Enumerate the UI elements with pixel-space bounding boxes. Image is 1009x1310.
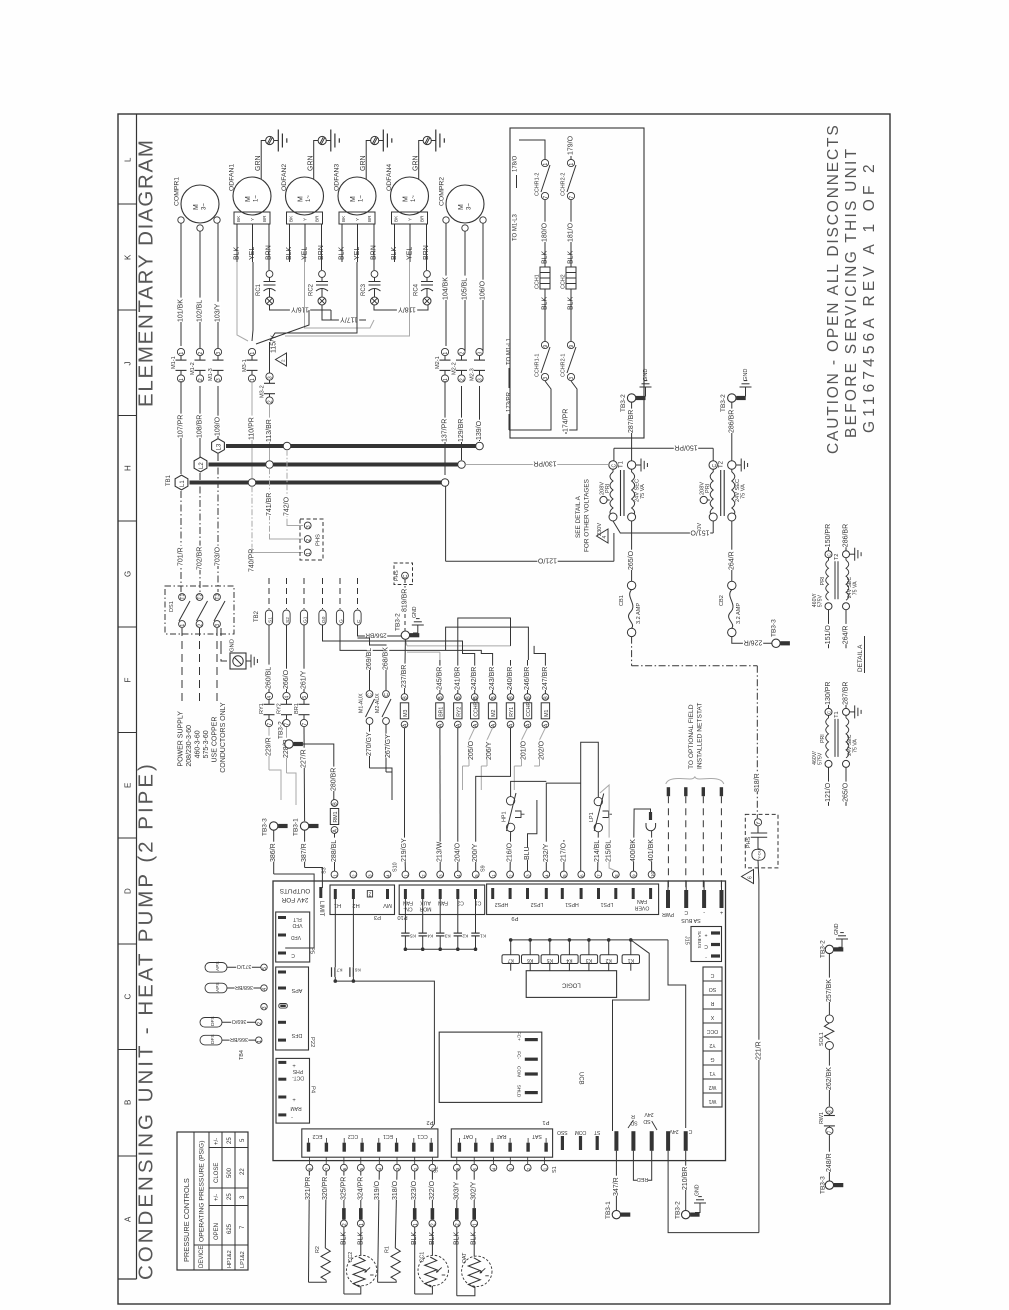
svg-text:P3: P3 bbox=[374, 914, 381, 920]
wire 227/R bbox=[303, 727, 306, 821]
svg-text:121/O: 121/O bbox=[825, 782, 832, 802]
svg-text:181/O: 181/O bbox=[568, 222, 575, 242]
transformer T1 secondary winding bbox=[631, 469, 633, 472]
svg-text:K5: K5 bbox=[410, 933, 416, 939]
auxiliary contact RY1 bbox=[265, 692, 272, 699]
svg-text:K1: K1 bbox=[628, 957, 634, 963]
svg-text:75 VA: 75 VA bbox=[853, 581, 859, 595]
relay coil RM1 bbox=[331, 800, 338, 807]
svg-text:325/PR: 325/PR bbox=[340, 1177, 347, 1200]
svg-text:2: 2 bbox=[460, 352, 466, 355]
svg-text:25: 25 bbox=[227, 1193, 233, 1200]
svg-text:2: 2 bbox=[508, 874, 513, 877]
svg-text:M3-1: M3-1 bbox=[242, 359, 248, 372]
wire H1 to K7 bbox=[334, 899, 336, 967]
svg-text:RED: RED bbox=[637, 1176, 648, 1182]
svg-text:1: 1 bbox=[472, 1223, 478, 1226]
wire YEL fan 1 bbox=[252, 231, 254, 262]
svg-text:LIMIT: LIMIT bbox=[318, 901, 324, 917]
wire 101/BK bbox=[180, 223, 182, 346]
TB2 terminal S2 bbox=[283, 610, 290, 625]
svg-text:575V: 575V bbox=[818, 752, 824, 765]
svg-text:4: 4 bbox=[602, 536, 608, 539]
phase monitor PHS output plug bbox=[394, 563, 413, 585]
svg-text:BLU: BLU bbox=[524, 846, 531, 860]
svg-text:GND: GND bbox=[743, 369, 749, 381]
wire 325/PR with splice bbox=[343, 1171, 345, 1208]
svg-text:YEL: YEL bbox=[249, 247, 256, 260]
svg-text:247/BR: 247/BR bbox=[542, 667, 549, 690]
svg-text:G: G bbox=[124, 571, 133, 577]
wire 179/O bbox=[570, 156, 572, 160]
svg-text:INSTALLED NETSTAT: INSTALLED NETSTAT bbox=[697, 703, 704, 769]
svg-text:174/PR: 174/PR bbox=[563, 409, 570, 432]
svg-text:TB4: TB4 bbox=[239, 1050, 245, 1060]
svg-text:M: M bbox=[350, 196, 357, 202]
svg-text:200/Y: 200/Y bbox=[472, 843, 479, 862]
svg-text:1: 1 bbox=[413, 1223, 419, 1226]
svg-text:M1-1: M1-1 bbox=[171, 356, 177, 369]
ODFAN3 GRN wire and plug bbox=[366, 141, 371, 180]
S1 terminal 5 bbox=[471, 1164, 478, 1171]
ground ODFAN3 bbox=[379, 140, 384, 142]
wire 219/GY M3 coil to board bbox=[404, 837, 407, 871]
svg-text:1~: 1~ bbox=[359, 195, 365, 202]
run capacitor RC4 bbox=[424, 271, 431, 278]
svg-text:CCHR2-2: CCHR2-2 bbox=[561, 173, 567, 196]
svg-text:1: 1 bbox=[333, 874, 338, 877]
svg-text:M1-2: M1-2 bbox=[190, 362, 196, 375]
svg-text:219/GY: 219/GY bbox=[401, 838, 408, 862]
svg-text:4: 4 bbox=[492, 1167, 497, 1170]
svg-text:302/Y: 302/Y bbox=[471, 1181, 478, 1200]
junction on L2 at M3-2 bbox=[266, 461, 274, 469]
svg-text:T1: T1 bbox=[619, 460, 625, 468]
svg-text:2: 2 bbox=[268, 400, 274, 403]
svg-text:R2: R2 bbox=[315, 1246, 321, 1253]
svg-text:173/PR: 173/PR bbox=[507, 391, 513, 412]
wire 102/BL bbox=[199, 231, 201, 351]
svg-text:256/BR: 256/BR bbox=[365, 631, 387, 638]
svg-text:575V: 575V bbox=[818, 595, 824, 608]
svg-text:BLK: BLK bbox=[568, 250, 575, 264]
svg-text:R: R bbox=[710, 1000, 714, 1006]
TB2 terminal G0 bbox=[319, 610, 326, 625]
terminal TB3-3 bbox=[270, 822, 278, 830]
wire 108/BR bbox=[199, 386, 201, 457]
S10 terminal 5 bbox=[472, 871, 479, 878]
svg-text:286/BR: 286/BR bbox=[842, 524, 849, 547]
svg-text:BR: BR bbox=[314, 215, 319, 222]
svg-text:3.2 AMP: 3.2 AMP bbox=[636, 603, 642, 624]
wire 202/O from M1 coil bbox=[540, 728, 546, 766]
svg-text:FAN: FAN bbox=[403, 900, 413, 906]
svg-text:5: 5 bbox=[302, 696, 308, 699]
svg-text:262/BK: 262/BK bbox=[826, 1067, 833, 1090]
wire 214/BL bbox=[597, 832, 600, 871]
svg-text:101/BK: 101/BK bbox=[178, 299, 185, 322]
svg-text:PHS: PHS bbox=[292, 1068, 303, 1074]
svg-text:3: 3 bbox=[543, 377, 549, 380]
svg-text:261/Y: 261/Y bbox=[301, 670, 308, 689]
svg-text:2: 2 bbox=[368, 891, 371, 897]
svg-text:227/R: 227/R bbox=[301, 749, 308, 768]
svg-text:GND: GND bbox=[695, 1184, 701, 1196]
wire from TB2 G0 to CCHR2 bbox=[323, 625, 475, 660]
wire RED jumper bbox=[633, 1151, 651, 1181]
svg-text:1: 1 bbox=[359, 1223, 365, 1226]
svg-text:210/BR: 210/BR bbox=[682, 1167, 689, 1190]
svg-text:217/O: 217/O bbox=[560, 842, 567, 862]
svg-text:179/O: 179/O bbox=[568, 135, 575, 155]
svg-text:C: C bbox=[688, 1128, 692, 1134]
svg-text:P22: P22 bbox=[309, 1037, 315, 1047]
ODFAN1 terminal box bbox=[234, 212, 270, 224]
ODFAN1 GRN wire and plug bbox=[261, 141, 266, 180]
svg-text:MV: MV bbox=[383, 902, 392, 908]
wire TO M1-L3 178/O bbox=[519, 140, 545, 160]
wire to M1 coil bbox=[534, 646, 545, 660]
svg-text:264/R: 264/R bbox=[728, 551, 735, 570]
connector P2 bbox=[302, 1129, 438, 1157]
wire 267/GY bbox=[385, 725, 387, 773]
svg-text:CB1: CB1 bbox=[619, 595, 625, 606]
junction on L1 at M3-1 bbox=[248, 479, 256, 487]
svg-text:W1: W1 bbox=[708, 1098, 716, 1104]
svg-text:1: 1 bbox=[431, 1167, 436, 1170]
svg-text:6: 6 bbox=[580, 874, 585, 877]
wire 287/BR T1 to TB3-2 bbox=[631, 402, 633, 461]
svg-text:APS: APS bbox=[215, 961, 221, 971]
svg-text:386/R: 386/R bbox=[270, 843, 277, 862]
svg-text:5: 5 bbox=[562, 874, 567, 877]
svg-text:215/BL: 215/BL bbox=[606, 840, 613, 862]
svg-text:245/BR: 245/BR bbox=[436, 667, 443, 690]
S1 terminal 1 bbox=[541, 1164, 548, 1171]
svg-text:1~: 1~ bbox=[411, 195, 417, 202]
svg-text:L3: L3 bbox=[217, 443, 223, 450]
svg-text:G0: G0 bbox=[321, 616, 327, 623]
svg-text:C: C bbox=[384, 693, 390, 697]
transformer T2 primary bottom bbox=[709, 513, 717, 521]
sensor CC2 bbox=[346, 1255, 376, 1285]
svg-text:FAN: FAN bbox=[438, 900, 448, 906]
svg-text:BLK: BLK bbox=[234, 246, 241, 260]
capacitor K5 bbox=[404, 899, 406, 933]
svg-text:7: 7 bbox=[828, 1131, 834, 1134]
relay K1 bbox=[629, 938, 633, 942]
svg-text:260/BL: 260/BL bbox=[266, 667, 273, 689]
svg-text:7: 7 bbox=[569, 196, 575, 199]
relay coil RY1 bbox=[507, 694, 514, 701]
svg-text:G: G bbox=[710, 1056, 714, 1062]
svg-text:DFS: DFS bbox=[291, 1032, 302, 1038]
svg-text:W2: W2 bbox=[708, 1084, 716, 1090]
svg-text:SHLD: SHLD bbox=[515, 1085, 521, 1098]
wire bus top rail outer bbox=[446, 627, 529, 660]
svg-text:701/R: 701/R bbox=[178, 547, 185, 566]
motor ODFAN2 bbox=[286, 177, 324, 215]
svg-text:TB3-2: TB3-2 bbox=[394, 613, 401, 631]
COMPR1 terminal T1 bbox=[178, 217, 184, 223]
terminal TB3-3 solenoid chain bbox=[825, 1181, 833, 1189]
svg-text:2: 2 bbox=[421, 874, 426, 877]
S3 terminal 3 bbox=[366, 871, 373, 878]
svg-text:J: J bbox=[124, 362, 133, 366]
UCB board outline bbox=[273, 881, 726, 1161]
svg-text:RAT: RAT bbox=[496, 1133, 507, 1139]
svg-text:SA BUS: SA BUS bbox=[681, 917, 701, 923]
wire 266/O bbox=[286, 625, 288, 692]
svg-text:216/O: 216/O bbox=[507, 842, 514, 862]
svg-text:DS1: DS1 bbox=[169, 601, 175, 612]
svg-text:CCHR2: CCHR2 bbox=[473, 699, 479, 717]
svg-text:TB3-3: TB3-3 bbox=[819, 1176, 826, 1194]
svg-text:DEVICE: DEVICE bbox=[199, 1246, 205, 1268]
svg-text:7: 7 bbox=[543, 196, 549, 199]
svg-text:113/BR: 113/BR bbox=[266, 419, 273, 442]
terminal 3 bbox=[261, 1004, 267, 1010]
svg-text:K2: K2 bbox=[462, 933, 468, 939]
svg-text:25: 25 bbox=[227, 1137, 233, 1144]
svg-text:CCHR1-1: CCHR1-1 bbox=[535, 354, 541, 377]
wire 221/R bbox=[758, 880, 760, 1233]
wire 264/R T2 secondary to CB2 bbox=[731, 521, 733, 581]
wire K bus to R terminal bbox=[613, 940, 650, 1131]
svg-text:CC1: CC1 bbox=[417, 1133, 427, 1139]
svg-text:DETAIL A: DETAIL A bbox=[857, 644, 864, 672]
svg-text:2: 2 bbox=[257, 1022, 263, 1025]
wire 121/O from L1 bbox=[445, 487, 447, 562]
wire 401/BK bbox=[651, 831, 653, 871]
auxiliary contact BR1 bbox=[300, 692, 307, 699]
svg-text:K6: K6 bbox=[355, 967, 361, 973]
svg-text:CN-: CN- bbox=[403, 906, 412, 912]
relay coil M2 bbox=[489, 694, 496, 701]
wire 248/R bbox=[828, 1135, 830, 1181]
contactor contact M1-3 bbox=[214, 348, 221, 355]
chassis ground plug GND bbox=[230, 653, 246, 669]
wire 217/O bbox=[563, 840, 565, 871]
wire 206/Y from M2 coil bbox=[487, 728, 493, 766]
svg-text:CCHR1: CCHR1 bbox=[526, 699, 532, 717]
S1 terminal 4 bbox=[490, 1164, 497, 1171]
contactor contact M3-2 bbox=[266, 373, 273, 380]
dashed wire 819/BR bbox=[404, 579, 406, 631]
capacitor K6 bbox=[349, 967, 351, 977]
svg-text:LPS2: LPS2 bbox=[531, 901, 544, 907]
svg-text:RY1: RY1 bbox=[259, 703, 265, 714]
ODFAN4 terminal box bbox=[392, 212, 428, 224]
wire BLK drops bbox=[237, 262, 248, 341]
svg-text:M2: M2 bbox=[491, 709, 497, 716]
crankcase heater enclosure box bbox=[510, 128, 644, 438]
gray feeder to RY1 coil bbox=[407, 645, 511, 647]
svg-text:150/PR: 150/PR bbox=[825, 524, 832, 547]
wire 400/BK with splice bbox=[634, 809, 651, 871]
transformer T1 primary winding bbox=[612, 469, 614, 472]
wire 115/Y bbox=[269, 342, 271, 373]
svg-text:L1: L1 bbox=[180, 480, 186, 487]
terminal DFS 1 366/BR bbox=[256, 1037, 262, 1043]
S3 terminal 2 bbox=[350, 871, 357, 878]
svg-text:5: 5 bbox=[359, 1167, 364, 1170]
transformer T2 secondary bottom bbox=[728, 513, 736, 521]
svg-text:121/O: 121/O bbox=[537, 556, 557, 563]
wire 151/O bbox=[613, 521, 713, 533]
svg-text:EC1: EC1 bbox=[383, 1133, 393, 1139]
svg-text:PRI: PRI bbox=[820, 734, 826, 743]
svg-text:118/Y: 118/Y bbox=[398, 305, 416, 312]
svg-text:E: E bbox=[124, 783, 133, 788]
24V output terminals bbox=[614, 1131, 618, 1151]
svg-text:5: 5 bbox=[474, 874, 479, 877]
svg-text:GND: GND bbox=[834, 923, 840, 935]
svg-text:SA BUS: SA BUS bbox=[696, 931, 702, 948]
wire BRN fan 4 bbox=[426, 231, 428, 270]
wire BLK upper 571 bbox=[570, 246, 572, 267]
svg-text:BLK: BLK bbox=[391, 246, 398, 260]
svg-text:368/BR: 368/BR bbox=[235, 984, 253, 990]
OAT bottom loop bbox=[457, 1287, 475, 1296]
bus L2 thick line bbox=[209, 463, 462, 467]
svg-text:TB3-2: TB3-2 bbox=[819, 940, 826, 958]
svg-text:7: 7 bbox=[597, 874, 602, 877]
wire 241/BR bbox=[457, 660, 459, 694]
svg-text:9: 9 bbox=[632, 874, 637, 877]
wire 262/BK bbox=[828, 1050, 830, 1107]
wire 742/O dash-dot bbox=[286, 450, 288, 521]
svg-text:75 VA: 75 VA bbox=[640, 484, 646, 499]
svg-text:YEL: YEL bbox=[302, 247, 309, 260]
svg-text:3: 3 bbox=[262, 1006, 268, 1009]
svg-text:M2-AUX: M2-AUX bbox=[375, 693, 381, 713]
capacitor K1 bbox=[475, 899, 477, 933]
relay coil RY2 bbox=[455, 694, 462, 701]
COMPR1 terminal T3 bbox=[214, 217, 220, 223]
wire 245/BR bbox=[439, 660, 441, 694]
svg-text:818/R: 818/R bbox=[754, 773, 761, 792]
relay coil BR1 bbox=[437, 694, 444, 701]
svg-text:BLK: BLK bbox=[339, 246, 346, 260]
svg-text:FC+: FC+ bbox=[515, 1032, 521, 1041]
S9 terminal 1 bbox=[489, 871, 496, 878]
svg-text:229/R: 229/R bbox=[266, 737, 273, 756]
svg-text:22: 22 bbox=[240, 1168, 246, 1175]
svg-text:A: A bbox=[124, 1216, 133, 1222]
transformer T1 secondary top terminal bbox=[627, 461, 635, 469]
svg-text:USE COPPER: USE COPPER bbox=[212, 717, 219, 763]
svg-text:CCHR1-2: CCHR1-2 bbox=[535, 173, 541, 196]
svg-text:288/BL: 288/BL bbox=[331, 840, 338, 862]
ground T1 bbox=[636, 464, 641, 466]
run capacitor RC1 bbox=[266, 271, 273, 278]
svg-text:303/Y: 303/Y bbox=[453, 1181, 460, 1200]
wire 268/BK to M2-AUX bbox=[370, 645, 387, 690]
wire BRN fan 1 bbox=[268, 231, 270, 270]
svg-text:+: + bbox=[704, 932, 707, 938]
svg-text:703/O: 703/O bbox=[215, 546, 222, 566]
svg-text:COM: COM bbox=[515, 1066, 521, 1077]
svg-text:COM: COM bbox=[575, 1129, 587, 1135]
relay coil M3 bbox=[401, 694, 408, 701]
S3 terminal 1 bbox=[331, 871, 338, 878]
wire 303/Y with splice bbox=[456, 1171, 458, 1208]
contactor contact M2-2 bbox=[458, 348, 465, 355]
netstat dashed wire 3 bbox=[702, 787, 705, 796]
svg-text:R: R bbox=[631, 1113, 635, 1119]
wire 107/PR bbox=[180, 381, 182, 474]
terminals SSO COM ST bbox=[561, 1136, 564, 1150]
svg-text:GND: GND bbox=[643, 369, 649, 381]
svg-text:180/O: 180/O bbox=[542, 222, 549, 242]
svg-text:BRN: BRN bbox=[266, 245, 273, 260]
svg-text:287/BR: 287/BR bbox=[842, 682, 849, 705]
svg-text:4: 4 bbox=[456, 874, 461, 877]
svg-text:R1: R1 bbox=[385, 1246, 391, 1253]
svg-text:GRN: GRN bbox=[308, 155, 315, 171]
svg-text:Y: Y bbox=[250, 218, 255, 221]
svg-text:ODFAN4: ODFAN4 bbox=[386, 164, 393, 191]
auxiliary contact RY2 bbox=[283, 692, 290, 699]
connector P1 bbox=[451, 1129, 552, 1157]
svg-text:7: 7 bbox=[285, 723, 291, 726]
svg-text:3: 3 bbox=[268, 376, 274, 379]
svg-text:BLK: BLK bbox=[542, 250, 549, 264]
node L1 hexagon bbox=[175, 475, 188, 490]
svg-text:265/O: 265/O bbox=[842, 782, 849, 802]
svg-text:178/O: 178/O bbox=[513, 155, 519, 172]
transformer T2 secondary top terminal bbox=[728, 461, 736, 469]
svg-text:SAT: SAT bbox=[531, 1133, 542, 1139]
svg-text:FAN: FAN bbox=[637, 898, 647, 904]
svg-text:TB1: TB1 bbox=[166, 474, 172, 486]
relays K7-K1 and logic bus bbox=[511, 939, 668, 941]
S9 terminal 10 bbox=[648, 871, 655, 878]
svg-text:SD: SD bbox=[643, 1118, 650, 1124]
motor COMPR2 bbox=[446, 185, 484, 223]
svg-text:C: C bbox=[712, 464, 718, 468]
svg-text:P5: P5 bbox=[308, 947, 314, 954]
svg-text:PHS: PHS bbox=[316, 534, 322, 546]
transformer T2 primary winding bbox=[712, 469, 714, 472]
wire 386/R bbox=[273, 830, 275, 874]
wire bus top rail inner bbox=[458, 618, 511, 660]
relay coil CCHR2 bbox=[471, 694, 478, 701]
svg-text:24V: 24V bbox=[669, 1128, 679, 1134]
svg-text:24V: 24V bbox=[644, 1111, 654, 1117]
svg-text:1: 1 bbox=[179, 378, 185, 381]
contact CCHR2-2 bbox=[567, 159, 574, 166]
wire BLK lower 571 bbox=[570, 289, 572, 341]
svg-text:3: 3 bbox=[368, 874, 373, 877]
svg-text:CLOSE: CLOSE bbox=[214, 1163, 220, 1183]
svg-text:3~: 3~ bbox=[467, 203, 473, 210]
svg-text:248/R: 248/R bbox=[826, 1153, 833, 1172]
junction wires to M3-1 bbox=[256, 310, 309, 344]
svg-text:2: 2 bbox=[460, 378, 466, 381]
svg-text:LPS1: LPS1 bbox=[601, 901, 614, 907]
svg-text:1: 1 bbox=[306, 552, 312, 555]
junction on L1 at M2-1 bbox=[441, 479, 449, 487]
ground ODFAN1 bbox=[274, 140, 279, 142]
svg-text:3: 3 bbox=[828, 1110, 834, 1113]
ground TB3-2 center bbox=[413, 632, 418, 634]
svg-text:PHS: PHS bbox=[394, 570, 400, 581]
svg-text:K5: K5 bbox=[547, 957, 553, 963]
svg-text:RC4: RC4 bbox=[414, 283, 420, 296]
svg-text:3~: 3~ bbox=[202, 203, 208, 210]
